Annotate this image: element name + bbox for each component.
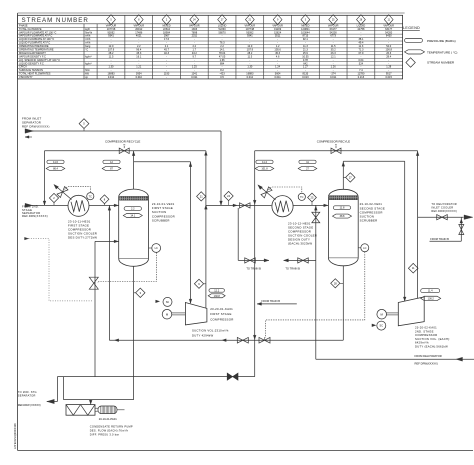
svg-text:1.30: 1.30 <box>247 65 253 69</box>
svg-text:12.1: 12.1 <box>331 54 337 58</box>
svg-text:9.7: 9.7 <box>193 54 197 58</box>
svg-text:2311: 2311 <box>192 34 198 38</box>
svg-text:MIXED: MIXED <box>163 23 171 27</box>
svg-text:1967: 1967 <box>164 34 170 38</box>
svg-text:42758: 42758 <box>357 27 365 31</box>
svg-text:7.4: 7.4 <box>359 68 363 72</box>
svg-text:MIXED: MIXED <box>301 23 309 27</box>
svg-text:DES. FLOW (EACH):76m³/h: DES. FLOW (EACH):76m³/h <box>90 428 129 432</box>
svg-text:LIQ. SPECIFIC GRAVITY AT 1: LIQ. SPECIFIC GRAVITY AT 100 °C <box>19 58 60 62</box>
svg-text:136.2: 136.2 <box>428 297 435 300</box>
svg-text:VAPOUR: VAPOUR <box>245 23 256 27</box>
svg-text:45.3: 45.3 <box>136 51 142 55</box>
svg-text:m: m <box>335 144 337 147</box>
svg-text:45.3: 45.3 <box>275 51 281 55</box>
svg-text:58070: 58070 <box>219 30 227 34</box>
svg-text:25.9: 25.9 <box>303 51 309 55</box>
svg-text:-: - <box>166 76 167 79</box>
svg-text:INLET COOLER: INLET COOLER <box>431 206 453 210</box>
svg-text:COMPRESSOR RECYLE: COMPRESSOR RECYLE <box>317 140 350 144</box>
svg-text:47.05: 47.05 <box>219 54 226 58</box>
svg-text:FROM TRAIN B: FROM TRAIN B <box>430 237 449 241</box>
svg-text:17486: 17486 <box>135 30 143 34</box>
svg-text:VAPOUR: VAPOUR <box>133 23 144 27</box>
svg-text:107748: 107748 <box>246 27 255 31</box>
svg-text:SC: SC <box>380 325 384 328</box>
svg-text:2.2: 2.2 <box>220 44 224 48</box>
svg-text:6429m³/h: 6429m³/h <box>415 341 429 345</box>
svg-text:1.21: 1.21 <box>136 65 142 69</box>
svg-text:0.78: 0.78 <box>303 58 309 62</box>
svg-text:(EACH):3023kW: (EACH):3023kW <box>288 241 312 245</box>
svg-text:92.1: 92.1 <box>303 37 309 41</box>
svg-text:LIQUID DENSITY F.C: LIQUID DENSITY F.C <box>19 61 44 65</box>
svg-text:LC: LC <box>155 247 158 250</box>
svg-text:1.66: 1.66 <box>220 58 226 62</box>
svg-text:STREAM NUMBER: STREAM NUMBER <box>427 61 455 65</box>
svg-text:1303: 1303 <box>191 27 197 31</box>
svg-text:TC: TC <box>300 196 304 199</box>
svg-text:DUTY (EACH):5661kW: DUTY (EACH):5661kW <box>415 345 448 349</box>
svg-text:23-10-21-PA01: 23-10-21-PA01 <box>99 417 118 421</box>
svg-text:barg: barg <box>85 44 91 48</box>
svg-text:MOLECULAR WEIGHT: MOLECULAR WEIGHT <box>19 51 46 55</box>
svg-text:38.8: 38.8 <box>340 215 345 218</box>
svg-text:REF DRW(XXXXX): REF DRW(XXXXX) <box>22 124 50 128</box>
svg-text:107.9: 107.9 <box>247 48 254 52</box>
svg-text:14.1: 14.1 <box>220 48 226 52</box>
svg-text:COMPRESSOR: COMPRESSOR <box>210 318 233 322</box>
svg-text:54200: 54200 <box>330 30 338 34</box>
svg-text:15624: 15624 <box>274 30 282 34</box>
svg-text:11.4: 11.4 <box>262 161 267 164</box>
svg-text:12.0: 12.0 <box>109 44 115 48</box>
svg-text:OPERATING PRESSURE: OPERATING PRESSURE <box>19 44 49 48</box>
svg-text:54200: 54200 <box>385 30 393 34</box>
svg-text:40.3: 40.3 <box>164 51 170 55</box>
svg-text:LEGEND: LEGEND <box>403 26 420 30</box>
svg-text:20912: 20912 <box>135 27 143 31</box>
svg-text:3954: 3954 <box>136 72 142 76</box>
svg-text:49.4: 49.4 <box>358 41 364 45</box>
svg-text:LIQUID FLOWRATE AT F.C: LIQUID FLOWRATE AT F.C <box>19 41 50 45</box>
svg-text:78.04: 78.04 <box>219 51 226 55</box>
svg-text:0.5: 0.5 <box>220 75 224 79</box>
svg-text:m³/h: m³/h <box>85 41 91 45</box>
svg-text:SEPARATOR: SEPARATOR <box>18 393 36 397</box>
svg-text:26.3: 26.3 <box>331 51 337 55</box>
svg-text:63177: 63177 <box>330 27 338 31</box>
svg-text:11.8: 11.8 <box>340 207 345 210</box>
svg-text:TOTAL HEAT FLOWRATES: TOTAL HEAT FLOWRATES <box>19 72 51 76</box>
svg-text:19209: 19209 <box>274 27 282 31</box>
svg-text:1.30: 1.30 <box>109 65 115 69</box>
svg-text:6773: 6773 <box>330 34 336 38</box>
svg-text:A:\TECHNIQ\0000136: A:\TECHNIQ\0000136 <box>13 423 17 449</box>
svg-text:17.6: 17.6 <box>164 37 170 41</box>
svg-text:2ND. STAGE: 2ND. STAGE <box>415 329 434 333</box>
svg-text:11.6: 11.6 <box>53 161 58 164</box>
svg-text:kg/h: kg/h <box>85 27 90 31</box>
svg-text:m³/h: m³/h <box>85 37 91 41</box>
svg-text:18904: 18904 <box>163 30 171 34</box>
svg-text:107.9: 107.9 <box>108 48 115 52</box>
svg-text:12.0: 12.0 <box>247 44 253 48</box>
svg-text:10.55: 10.55 <box>302 54 309 58</box>
svg-text:kg/m³: kg/m³ <box>85 61 92 65</box>
svg-text:54.0: 54.0 <box>386 44 392 48</box>
svg-text:2.2: 2.2 <box>137 44 141 48</box>
svg-text:REF.DRW(XXXXX): REF.DRW(XXXXX) <box>431 209 457 213</box>
svg-text:DUTY 4294kW: DUTY 4294kW <box>192 334 213 338</box>
svg-text:45.7: 45.7 <box>164 48 170 52</box>
svg-text:3604: 3604 <box>275 72 281 76</box>
svg-text:VAPOUR DENSITY F.C: VAPOUR DENSITY F.C <box>19 54 46 58</box>
svg-text:VAPOUR: VAPOUR <box>328 23 339 27</box>
svg-text:SCRUBBER: SCRUBBER <box>152 218 170 222</box>
svg-text:16883: 16883 <box>246 72 254 76</box>
svg-text:76.3: 76.3 <box>220 41 226 45</box>
svg-text:8133: 8133 <box>303 72 309 76</box>
svg-text:STREAM NUMBER: STREAM NUMBER <box>22 17 89 24</box>
svg-text:1.7: 1.7 <box>193 48 197 52</box>
svg-text:11.3: 11.3 <box>359 44 364 48</box>
svg-text:0.213: 0.213 <box>358 75 365 79</box>
svg-text:VAPOUR: VAPOUR <box>189 23 200 27</box>
svg-text:7698: 7698 <box>191 30 197 34</box>
svg-text:m: m <box>123 144 125 147</box>
svg-text:1341: 1341 <box>191 72 197 76</box>
svg-text:103044: 103044 <box>301 30 310 34</box>
svg-text:107748: 107748 <box>107 27 116 31</box>
svg-text:23-20-01-KA01: 23-20-01-KA01 <box>210 307 233 311</box>
svg-text:m³/h: m³/h <box>85 34 91 38</box>
svg-text:71.3: 71.3 <box>358 48 364 52</box>
svg-text:2.1: 2.1 <box>165 44 169 48</box>
svg-text:DES DUTY:2772kW: DES DUTY:2772kW <box>68 235 97 239</box>
svg-text:PRESSURE (BARG): PRESSURE (BARG) <box>427 39 456 43</box>
svg-text:9341: 9341 <box>247 34 253 38</box>
svg-text:COMPRESSOR: COMPRESSOR <box>415 333 437 337</box>
svg-text:CONDENSATE RETURN PUMP: CONDENSATE RETURN PUMP <box>90 424 133 428</box>
svg-text:120821: 120821 <box>301 27 310 31</box>
svg-text:52260: 52260 <box>219 27 227 31</box>
svg-text:TEMPERATURE ( °C): TEMPERATURE ( °C) <box>427 50 457 54</box>
svg-text:2.2: 2.2 <box>131 207 135 210</box>
svg-text:TO TRAIN B: TO TRAIN B <box>285 266 300 270</box>
svg-text:0.012: 0.012 <box>108 75 115 79</box>
svg-text:TO TRAIN B: TO TRAIN B <box>246 266 261 270</box>
svg-text:TC: TC <box>89 195 93 198</box>
svg-text:REF.DRN(XXXXX): REF.DRN(XXXXX) <box>22 214 48 218</box>
svg-text:LIQUID: LIQUID <box>357 23 366 27</box>
svg-text:28.2: 28.2 <box>247 51 253 55</box>
svg-text:1.25: 1.25 <box>192 65 198 69</box>
svg-text:11.5: 11.5 <box>331 44 336 48</box>
svg-text:REF DRW(XXXXX): REF DRW(XXXXX) <box>415 361 438 365</box>
svg-text:kW: kW <box>85 72 89 76</box>
svg-text:101.8: 101.8 <box>261 167 268 170</box>
svg-text:VAPOUR: VAPOUR <box>106 23 117 27</box>
svg-text:28.2: 28.2 <box>109 51 115 55</box>
svg-text:130.8: 130.8 <box>214 295 221 298</box>
svg-text:67.9: 67.9 <box>358 51 364 55</box>
svg-text:VAPOUR FLOWRATE AT F.C: VAPOUR FLOWRATE AT F.C <box>19 34 53 38</box>
svg-text:0.015: 0.015 <box>386 75 393 79</box>
svg-text:93092: 93092 <box>246 30 254 34</box>
svg-text:21.3: 21.3 <box>303 48 309 52</box>
svg-text:PHASE: PHASE <box>19 23 28 27</box>
svg-text:LIQUID: LIQUID <box>218 23 227 27</box>
svg-text:TO 2ND. STG: TO 2ND. STG <box>18 390 37 394</box>
svg-text:11.3: 11.3 <box>303 44 308 48</box>
svg-text:REF.DRW (XXXXX): REF.DRW (XXXXX) <box>18 403 41 407</box>
svg-text:28.4: 28.4 <box>386 54 392 58</box>
svg-text:kg/m³: kg/m³ <box>85 54 92 58</box>
svg-text:8713: 8713 <box>303 34 309 38</box>
svg-text:16.1: 16.1 <box>136 54 142 58</box>
svg-text:642: 642 <box>303 61 308 65</box>
svg-text:23-20-02-KA01: 23-20-02-KA01 <box>415 326 437 330</box>
svg-text:0.011: 0.011 <box>275 75 282 79</box>
svg-text:FROM TRAIN B: FROM TRAIN B <box>261 299 280 303</box>
svg-text:26.3: 26.3 <box>386 51 392 55</box>
svg-text:105.6: 105.6 <box>274 48 281 52</box>
svg-text:6430: 6430 <box>386 34 392 38</box>
svg-text:TO DEHYDRATOR: TO DEHYDRATOR <box>431 202 456 206</box>
svg-text:1193: 1193 <box>164 72 170 76</box>
svg-text:4021: 4021 <box>136 34 142 38</box>
svg-text:3511: 3511 <box>275 34 281 38</box>
svg-text:4.6: 4.6 <box>276 54 280 58</box>
svg-text:OPERATING TEMPERATURE: OPERATING TEMPERATURE <box>19 48 54 52</box>
svg-text:VAPOUR: VAPOUR <box>383 23 394 27</box>
svg-text:LC: LC <box>363 247 366 250</box>
svg-text:894: 894 <box>220 61 225 65</box>
svg-text:12.2: 12.2 <box>214 289 219 292</box>
svg-text:11780: 11780 <box>357 72 364 76</box>
svg-text:35.2: 35.2 <box>331 48 337 52</box>
svg-text:43.2: 43.2 <box>192 51 198 55</box>
svg-text:DIFF. PRESU 3.0 bar: DIFF. PRESU 3.0 bar <box>90 432 119 436</box>
svg-text:-423: -423 <box>220 72 226 76</box>
svg-text:1.27: 1.27 <box>303 65 309 69</box>
svg-text:CP/CV: CP/CV <box>19 65 27 69</box>
svg-text:0.011: 0.011 <box>191 75 198 79</box>
svg-text:16883: 16883 <box>107 72 115 76</box>
svg-text:93092: 93092 <box>107 30 115 34</box>
svg-text:1.2: 1.2 <box>276 44 280 48</box>
svg-text:SURFACE TENSION: SURFACE TENSION <box>19 68 43 72</box>
svg-text:8.2: 8.2 <box>220 68 224 72</box>
svg-text:0.013: 0.013 <box>302 75 309 79</box>
svg-text:2.2: 2.2 <box>193 44 197 48</box>
svg-text:0.011: 0.011 <box>330 75 337 79</box>
svg-text:VISCOSITY: VISCOSITY <box>19 75 33 79</box>
svg-text:0.64: 0.64 <box>358 58 364 62</box>
svg-text:1.26: 1.26 <box>331 65 337 69</box>
svg-text:9517: 9517 <box>386 72 392 76</box>
svg-text:63177: 63177 <box>385 27 393 31</box>
svg-text:SCRUBBER: SCRUBBER <box>360 219 378 223</box>
svg-text:11.4: 11.4 <box>428 290 433 293</box>
svg-text:FROM DEHYDRATOR: FROM DEHYDRATOR <box>415 354 442 358</box>
svg-text:VAPOUR: VAPOUR <box>272 23 283 27</box>
svg-text:TOTAL FLOWRATE: TOTAL FLOWRATE <box>19 27 42 31</box>
svg-text:11.5: 11.5 <box>109 54 114 58</box>
svg-text:11.5: 11.5 <box>247 54 252 58</box>
svg-text:SUCTION VOL. (EACH):: SUCTION VOL. (EACH): <box>415 337 450 341</box>
svg-text:SUCTION VOL:2310m³/h: SUCTION VOL:2310m³/h <box>192 328 229 332</box>
svg-text:524: 524 <box>359 61 364 65</box>
svg-text:1.28: 1.28 <box>386 65 392 69</box>
svg-text:FIRST STAGE: FIRST STAGE <box>210 312 231 316</box>
svg-text:86.4: 86.4 <box>53 167 58 170</box>
svg-text:°C: °C <box>85 48 88 52</box>
svg-text:VAPOUR FLOWRATE AT 100 °C: VAPOUR FLOWRATE AT 100 °C <box>19 30 57 34</box>
svg-text:1.24: 1.24 <box>275 65 281 69</box>
svg-text:N/m: N/m <box>85 68 90 72</box>
svg-text:96.4: 96.4 <box>136 48 142 52</box>
svg-text:SC: SC <box>166 301 170 304</box>
svg-text:38.1: 38.1 <box>358 37 364 41</box>
svg-text:22612: 22612 <box>163 27 171 31</box>
svg-text:LIQUID FLOWRATE AT 100 °C: LIQUID FLOWRATE AT 100 °C <box>19 37 54 41</box>
svg-text:Nm³/h: Nm³/h <box>85 30 93 34</box>
svg-text:0.010: 0.010 <box>136 75 143 79</box>
svg-text:0.012: 0.012 <box>247 75 254 79</box>
svg-text:14.1: 14.1 <box>130 214 135 217</box>
svg-text:136.8: 136.8 <box>386 48 393 52</box>
svg-text:-274: -274 <box>331 72 337 76</box>
svg-text:9341: 9341 <box>108 34 114 38</box>
